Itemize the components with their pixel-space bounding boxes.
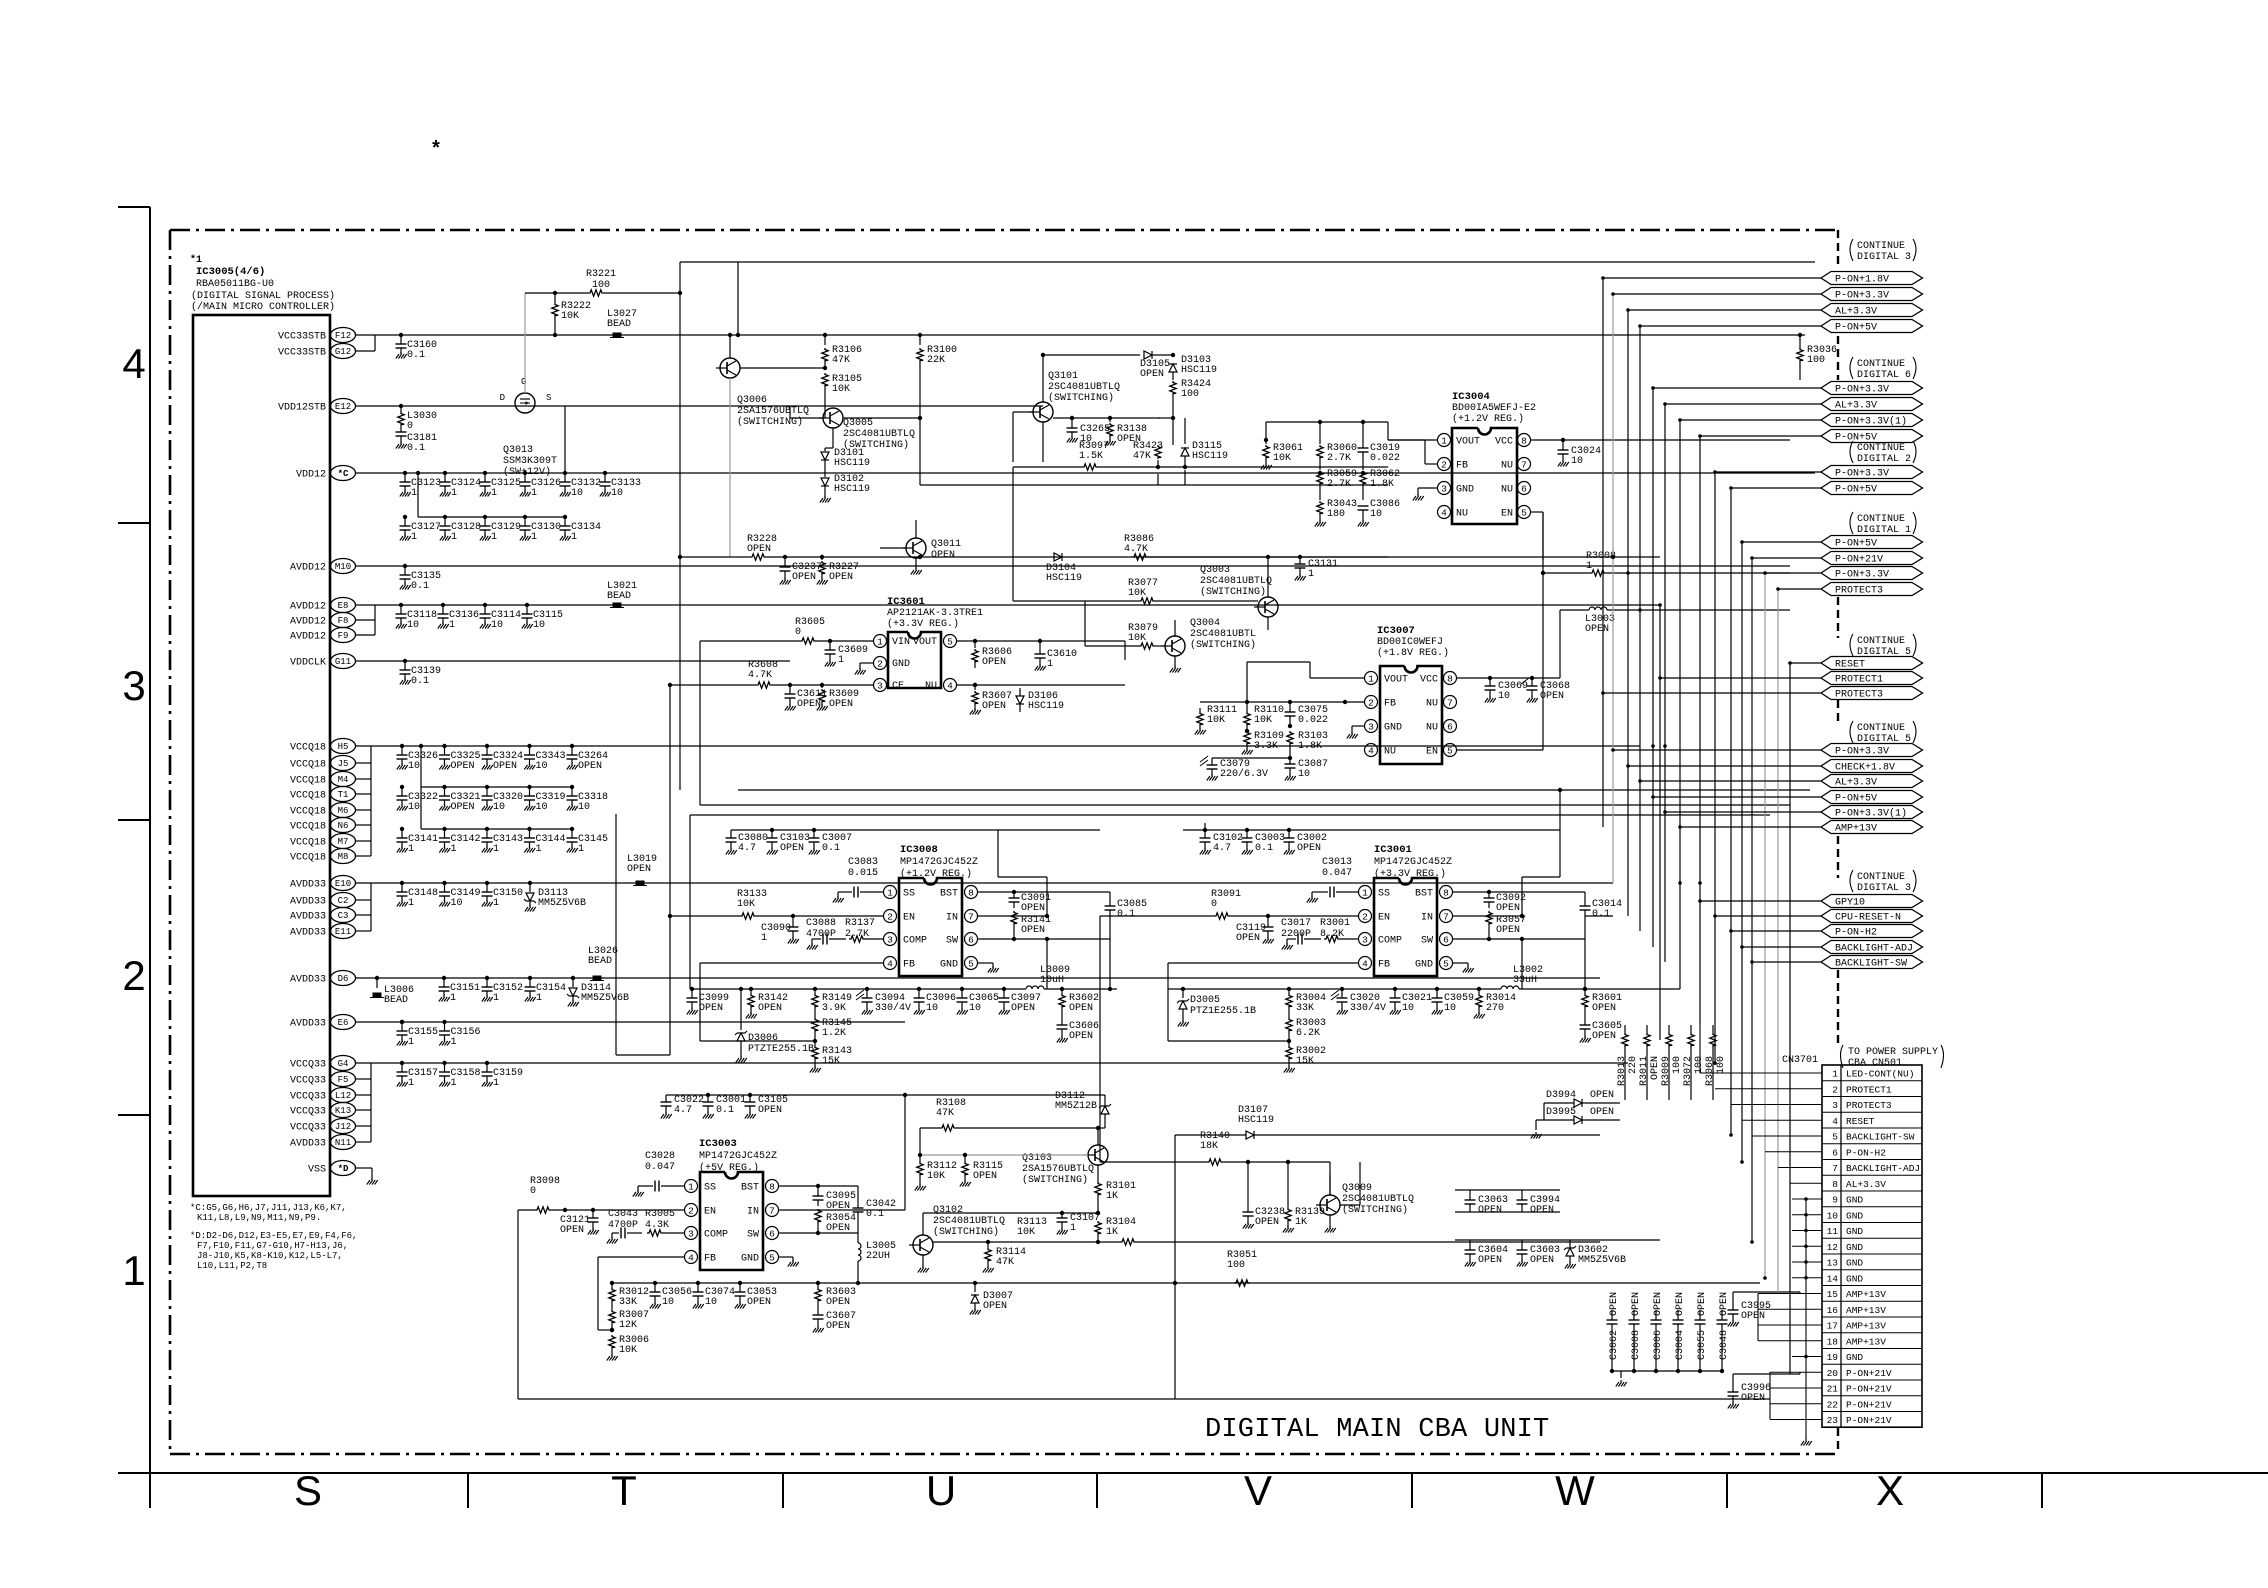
wire C3022 bus (666, 1094, 1105, 1096)
svg-text:P-ON-H2: P-ON-H2 (1846, 1147, 1886, 1158)
capacitor C3611 (789, 685, 791, 694)
IC3004 pin 6 NU (1518, 482, 1531, 495)
resistor R3012 (610, 1281, 614, 1285)
svg-text:2: 2 (1362, 911, 1368, 922)
wire AVDD12 M10 row (356, 565, 1790, 567)
svg-text:C3083: C3083 (848, 857, 878, 868)
net flag PROTECT1 (1821, 672, 1923, 685)
svg-text:2SC4081UBTL: 2SC4081UBTL (1190, 629, 1256, 640)
svg-text:SS: SS (704, 1183, 716, 1194)
net flag P-ON+3.3V(1) (1821, 806, 1923, 819)
svg-text:VCCQ18: VCCQ18 (290, 760, 326, 771)
svg-text:(+1.8V REG.): (+1.8V REG.) (1377, 647, 1449, 659)
svg-text:OPEN: OPEN (982, 657, 1006, 668)
capacitor C3075 (1288, 700, 1292, 704)
svg-text:TO POWER SUPPLY: TO POWER SUPPLY (1848, 1047, 1938, 1058)
svg-text:P-ON+21V: P-ON+21V (1846, 1368, 1892, 1379)
svg-text:100: 100 (1227, 1260, 1245, 1271)
svg-text:GND: GND (940, 960, 958, 971)
svg-text:VDDCLK: VDDCLK (290, 658, 326, 669)
IC3007 pin 5 EN (1444, 744, 1457, 757)
capacitor C3237 (784, 557, 786, 567)
wire flag stub (1665, 403, 1821, 405)
wire R3079 row (1085, 645, 1139, 647)
capacitor C3115 (525, 603, 529, 607)
wire loop left2 (699, 641, 701, 805)
wire bus vertical (1679, 420, 1681, 989)
IC3008 pin 3 COMP (884, 933, 897, 946)
svg-text:IN: IN (1421, 913, 1433, 924)
wire bus vertical (1714, 472, 1716, 1065)
capacitor C3056 (653, 1281, 657, 1285)
wire flag stub (1742, 541, 1821, 543)
svg-text:CBA CN501: CBA CN501 (1848, 1058, 1902, 1069)
capacitor C3141 (400, 827, 404, 831)
svg-text:7: 7 (1832, 1163, 1838, 1174)
svg-text:OPEN: OPEN (829, 572, 853, 583)
capacitor C3604 (1469, 1240, 1471, 1250)
svg-text:1: 1 (1362, 887, 1368, 898)
capacitor C3134 (563, 515, 567, 519)
resistor R3059 (1317, 471, 1323, 485)
svg-text:10K: 10K (561, 311, 579, 322)
wire Q3101 base link (1158, 417, 1173, 419)
wire IN 3001 (1453, 915, 1522, 917)
svg-text:C3043: C3043 (608, 1209, 638, 1220)
svg-text:EN: EN (1426, 747, 1438, 758)
resistor R3609 (821, 685, 823, 688)
wire C3080 bus (731, 829, 1100, 831)
svg-text:220/6.3V: 220/6.3V (1220, 768, 1268, 780)
IC3004 pin 7 NU (1518, 458, 1531, 471)
transistor Q3009 (1320, 1195, 1340, 1215)
svg-text:OPEN: OPEN (747, 1297, 771, 1308)
wire VCCQ33 row (356, 1062, 1628, 1064)
svg-text:OPEN: OPEN (1236, 933, 1260, 944)
svg-text:VDD12STB: VDD12STB (278, 403, 326, 414)
inductor L3006 BEAD (375, 976, 379, 980)
svg-text:10: 10 (1402, 1003, 1414, 1014)
wire feeder junction (1638, 608, 1642, 612)
svg-text:M6: M6 (338, 806, 349, 816)
wire long bus B (700, 804, 1790, 806)
wire VCCQ18 subrow1 (419, 744, 423, 748)
IC3001 pin 5 GND (1440, 957, 1453, 970)
svg-text:HSC119: HSC119 (1046, 573, 1082, 584)
svg-text:1: 1 (531, 532, 537, 543)
svg-text:4: 4 (947, 680, 953, 691)
svg-text:0.1: 0.1 (407, 350, 425, 361)
capacitor C3119 (1267, 916, 1269, 927)
capacitor C3181 (400, 426, 402, 432)
svg-text:C3088: C3088 (806, 918, 836, 929)
svg-text:HSC119: HSC119 (1181, 365, 1217, 376)
svg-text:BST: BST (1415, 889, 1433, 900)
wire flag stub (1640, 325, 1821, 327)
net flag P-ON+3.3V (1821, 567, 1923, 580)
resistor R3227 (821, 557, 823, 560)
svg-text:AVDD12: AVDD12 (290, 563, 326, 574)
resistor R3068 (1710, 1033, 1716, 1047)
svg-text:H5: H5 (338, 742, 349, 752)
svg-text:OPEN: OPEN (1609, 1292, 1620, 1316)
resistor R3036 (1799, 335, 1801, 348)
capacitor C3042 (853, 1207, 864, 1209)
svg-text:1: 1 (122, 1247, 145, 1294)
wire R3007 tap (598, 1329, 612, 1331)
wire flag stub (1715, 471, 1821, 473)
svg-text:FB: FB (1456, 461, 1468, 472)
svg-text:BACKLIGHT-ADJ: BACKLIGHT-ADJ (1835, 944, 1913, 955)
svg-text:0.047: 0.047 (1322, 868, 1352, 879)
svg-text:C3017: C3017 (1281, 918, 1311, 929)
wire flag stub (1640, 780, 1821, 782)
capacitor C3114 (483, 603, 487, 607)
svg-text:VCCQ33: VCCQ33 (290, 1107, 326, 1118)
wire out bus 3001 (1168, 988, 1501, 990)
wire Q3102 links (922, 1213, 924, 1235)
svg-text:CONTINUE: CONTINUE (1857, 636, 1905, 647)
wire mid col (679, 293, 681, 790)
svg-text:CONTINUE: CONTINUE (1857, 443, 1905, 454)
wire R3113 row (933, 1241, 1120, 1243)
resistor R3110 (1246, 702, 1248, 712)
wire feeder junction (1663, 744, 1667, 748)
IC3008 pin 1 SS (884, 886, 897, 899)
svg-text:OPEN: OPEN (1697, 1292, 1708, 1316)
resistor R3111 (1199, 708, 1201, 712)
svg-text:RBA05011BG-U0: RBA05011BG-U0 (196, 279, 274, 290)
diode D3115 HSC119 (1181, 448, 1189, 456)
wire flag stub (1628, 765, 1821, 767)
wire mid row right (1148, 556, 1660, 558)
svg-text:DIGITAL 1: DIGITAL 1 (1857, 525, 1911, 536)
wire flag stub (1731, 930, 1821, 932)
wire VDD12STB row (356, 405, 1043, 407)
svg-text:2: 2 (1832, 1084, 1838, 1095)
capacitor C3095 (817, 1186, 819, 1196)
wire R3108 row (920, 1127, 940, 1129)
capacitor C3126 (523, 471, 527, 475)
svg-text:AL+3.3V: AL+3.3V (1835, 401, 1877, 412)
svg-text:VCCQ18: VCCQ18 (290, 822, 326, 833)
IC3004 pin 4 NU (1438, 506, 1451, 519)
wire R3008 row (1543, 572, 1590, 574)
svg-text:1: 1 (493, 844, 499, 855)
svg-text:GPY10: GPY10 (1835, 898, 1865, 909)
svg-text:1: 1 (408, 1037, 414, 1048)
svg-text:SS: SS (1378, 889, 1390, 900)
wire Q3101 base row (1053, 417, 1072, 419)
svg-text:6: 6 (1447, 721, 1453, 732)
svg-text:M4: M4 (338, 775, 349, 785)
capacitor C3063 (1469, 1190, 1471, 1200)
column tick (782, 1473, 784, 1508)
capacitor C3605 (1580, 1024, 1591, 1026)
svg-text:OPEN: OPEN (1650, 1056, 1661, 1080)
svg-text:BD00IC0WEFJ: BD00IC0WEFJ (1377, 637, 1443, 648)
IC3004 pin 5 EN (1518, 506, 1531, 519)
resistor R3424 (1170, 381, 1176, 395)
svg-text:1: 1 (1586, 561, 1592, 572)
svg-text:Q3003: Q3003 (1200, 565, 1230, 576)
svg-text:GND: GND (1846, 1226, 1863, 1237)
net flag P-ON+5V (1821, 482, 1923, 495)
capacitor C3091 (1013, 892, 1015, 898)
wire bus vertical (1652, 388, 1654, 947)
unit dash-dot border right (1837, 230, 1839, 268)
svg-text:T: T (611, 1467, 637, 1514)
capacitor C3069 (1489, 678, 1491, 686)
capacitor C3139 (403, 659, 407, 663)
svg-text:4: 4 (122, 340, 145, 387)
svg-text:E10: E10 (335, 879, 351, 889)
svg-text:8: 8 (1832, 1179, 1838, 1190)
svg-text:OPEN: OPEN (1530, 1205, 1554, 1216)
svg-text:OPEN: OPEN (973, 1171, 997, 1182)
svg-text:AL+3.3V: AL+3.3V (1835, 307, 1877, 318)
capacitor C3318 (570, 785, 574, 789)
IC3001 pin 4 FB (1359, 957, 1372, 970)
capacitor C3065 (960, 987, 964, 991)
wire IC3004 EN (1531, 511, 1543, 513)
IC3001 pin 2 EN (1359, 910, 1372, 923)
svg-text:7: 7 (1521, 459, 1527, 470)
capacitor C3128 (443, 515, 447, 519)
svg-text:0.1: 0.1 (1117, 909, 1135, 920)
wire out bus (692, 988, 1026, 990)
svg-text:F7,F10,F11,G7-G10,H7-H13,J6,: F7,F10,F11,G7-G10,H7-H13,J6, (197, 1241, 348, 1251)
svg-text:CONTINUE: CONTINUE (1857, 359, 1905, 370)
svg-text:OPEN: OPEN (1496, 925, 1520, 936)
svg-text:C3028: C3028 (645, 1151, 675, 1162)
svg-text:U: U (926, 1467, 956, 1514)
svg-text:GND: GND (1846, 1258, 1863, 1269)
wire BST feed (998, 876, 1047, 878)
svg-text:MP1472GJC452Z: MP1472GJC452Z (900, 857, 978, 868)
svg-text:4700P: 4700P (608, 1220, 638, 1231)
capacitor C3074 (696, 1281, 700, 1285)
svg-text:1: 1 (451, 1037, 457, 1048)
transistor Q3103 (1088, 1145, 1108, 1165)
wire VDD12 subrow (416, 471, 420, 475)
wire mid row (680, 556, 750, 558)
svg-text:1: 1 (887, 887, 893, 898)
svg-text:OPEN: OPEN (1540, 691, 1564, 702)
wire AVDD33 E6 row (356, 1021, 905, 1023)
svg-text:COMP: COMP (1378, 936, 1402, 947)
net flag P-ON+3.3V(1) (1821, 414, 1923, 427)
wire feeder junction (1763, 1276, 1767, 1280)
svg-text:10: 10 (536, 802, 548, 813)
svg-text:(SWITCHING): (SWITCHING) (1190, 639, 1256, 651)
wire C3996 link (1732, 1374, 1734, 1382)
svg-text:AVDD33: AVDD33 (290, 897, 326, 908)
svg-text:OPEN: OPEN (1478, 1255, 1502, 1266)
diode D3104 HSC119 (1054, 553, 1062, 561)
svg-text:OPEN: OPEN (826, 1201, 850, 1212)
svg-text:10: 10 (491, 620, 503, 631)
capacitor C3158 (442, 1061, 446, 1065)
svg-text:(/MAIN MICRO CONTROLLER): (/MAIN MICRO CONTROLLER) (191, 301, 335, 313)
transistor Q3101 (1033, 402, 1053, 422)
svg-text:P-ON+21V: P-ON+21V (1846, 1415, 1892, 1426)
svg-text:P-ON+3.3V: P-ON+3.3V (1835, 385, 1889, 396)
svg-text:VSS: VSS (308, 1165, 326, 1176)
svg-text:33K: 33K (1296, 1003, 1314, 1014)
wire long bus A (738, 789, 1810, 791)
IC3008 pin 4 FB (884, 957, 897, 970)
wire VCCQ33 merge (356, 1078, 371, 1080)
svg-text:270: 270 (1486, 1003, 1504, 1014)
wire Q3006 base (740, 367, 825, 369)
wire feeder junction (1611, 555, 1615, 559)
wire GND pin (978, 962, 993, 964)
svg-text:1: 1 (1047, 659, 1053, 670)
svg-text:R3001: R3001 (1320, 918, 1350, 929)
svg-text:4: 4 (1441, 507, 1447, 518)
wire VIN row (700, 640, 800, 642)
svg-text:5: 5 (1521, 507, 1527, 518)
capacitor C3136 (441, 603, 445, 607)
svg-text:OPEN: OPEN (1719, 1292, 1730, 1316)
capacitor C3264 (570, 744, 574, 748)
svg-text:F9: F9 (338, 631, 349, 641)
svg-text:D3005: D3005 (1190, 995, 1220, 1006)
connector gnd rail (1805, 1199, 1807, 1437)
svg-text:OPEN: OPEN (451, 761, 475, 772)
net flag P-ON+3.3V (1821, 744, 1923, 757)
inductor L3003 OPEN (1589, 607, 1607, 610)
svg-text:PROTECT3: PROTECT3 (1835, 690, 1883, 701)
capacitor C3152 (485, 976, 489, 980)
wire bus vertical (1659, 605, 1661, 1040)
net flag CPU-RESET-N (1821, 910, 1923, 923)
wire feeder junction (1658, 603, 1662, 607)
svg-text:10: 10 (578, 802, 590, 813)
svg-text:100: 100 (1672, 1056, 1683, 1074)
column tick (467, 1473, 469, 1508)
svg-text:100: 100 (1807, 355, 1825, 366)
svg-text:2200P: 2200P (1281, 929, 1311, 940)
svg-text:3: 3 (1362, 934, 1368, 945)
IC3007 pin 2 FB (1365, 696, 1378, 709)
resistor R3072 (1688, 1033, 1694, 1047)
svg-text:R3221: R3221 (586, 269, 616, 280)
net flag AL+3.3V (1821, 398, 1923, 411)
IC3007 pin 4 NU (1365, 744, 1378, 757)
capacitor C3265 (1070, 416, 1074, 420)
column tick (1411, 1473, 1413, 1508)
svg-text:D: D (500, 393, 505, 403)
svg-text:1: 1 (493, 993, 499, 1004)
svg-text:3: 3 (877, 680, 883, 691)
svg-text:18: 18 (1827, 1336, 1839, 1347)
wire flag stub (1700, 900, 1821, 902)
svg-text:(+1.2V REG.): (+1.2V REG.) (1452, 413, 1524, 425)
svg-text:AMP+13V: AMP+13V (1846, 1336, 1886, 1347)
wire bus vertical (1602, 278, 1604, 827)
svg-text:R3068: R3068 (1705, 1056, 1716, 1086)
resistor R3142 (749, 987, 753, 991)
svg-text:0.1: 0.1 (822, 843, 840, 854)
svg-text:1: 1 (451, 844, 457, 855)
resistor R3139 (1286, 1160, 1290, 1164)
svg-text:10: 10 (1370, 509, 1382, 520)
svg-text:AVDD12: AVDD12 (290, 602, 326, 613)
capacitor C3142 (442, 827, 446, 831)
wire flag stub (1660, 677, 1821, 679)
wire flag stub (1731, 487, 1821, 489)
net flag AL+3.3V (1821, 304, 1923, 317)
resistor R3062 (1360, 471, 1366, 485)
svg-text:0: 0 (795, 627, 801, 638)
svg-text:2: 2 (122, 952, 145, 999)
svg-text:CHECK+1.8V: CHECK+1.8V (1835, 763, 1895, 774)
wire flag stub (1653, 796, 1821, 798)
svg-text:(SWITCHING): (SWITCHING) (933, 1226, 999, 1238)
svg-text:OPEN: OPEN (829, 699, 853, 710)
svg-text:OPEN: OPEN (1592, 1003, 1616, 1014)
svg-text:1K: 1K (1295, 1217, 1307, 1228)
svg-text:3: 3 (887, 934, 893, 945)
svg-text:Q3006: Q3006 (737, 395, 767, 406)
svg-text:DIGITAL MAIN CBA UNIT: DIGITAL MAIN CBA UNIT (1205, 1415, 1549, 1445)
svg-text:P-ON+21V: P-ON+21V (1835, 555, 1883, 566)
svg-text:1: 1 (450, 993, 456, 1004)
wire amp13 feeders (1758, 1293, 1822, 1295)
svg-text:HSC119: HSC119 (1192, 451, 1228, 462)
svg-text:1: 1 (451, 1078, 457, 1089)
wire FB junction (700, 1040, 815, 1042)
svg-text:L10,L11,P2,T8: L10,L11,P2,T8 (197, 1261, 267, 1271)
svg-text:15K: 15K (1296, 1056, 1314, 1067)
capacitor C3123 (403, 471, 407, 475)
resistor R3002 (1286, 1046, 1292, 1060)
capacitor C3144 (527, 827, 531, 831)
svg-text:10: 10 (1298, 769, 1310, 780)
svg-text:2: 2 (688, 1205, 694, 1216)
unit dash-dot border left (169, 230, 172, 1454)
svg-text:OPEN: OPEN (982, 701, 1006, 712)
capacitor C3092 (1488, 892, 1490, 898)
resistor R3104 (1096, 1211, 1100, 1215)
svg-text:AVDD33: AVDD33 (290, 912, 326, 923)
svg-text:OPEN: OPEN (627, 864, 651, 875)
transistor Q3013 SSM3K309T (515, 393, 535, 413)
svg-text:AVDD33: AVDD33 (290, 1139, 326, 1150)
net flag P-ON+1.8V (1821, 272, 1923, 285)
wire R311x row (1200, 701, 1345, 703)
svg-text:10: 10 (1571, 456, 1583, 467)
net flag P-ON+5V (1821, 536, 1923, 549)
svg-text:1.8K: 1.8K (1370, 479, 1394, 490)
capacitor C3145 (570, 827, 574, 831)
svg-text:1: 1 (536, 993, 542, 1004)
svg-text:OPEN: OPEN (699, 1003, 723, 1014)
net flag BACKLIGHT-ADJ (1821, 941, 1923, 954)
svg-text:P-ON+3.3V: P-ON+3.3V (1835, 291, 1889, 302)
capacitor C3143 (485, 827, 489, 831)
svg-text:T1: T1 (338, 790, 349, 800)
svg-text:EN: EN (1378, 913, 1390, 924)
svg-text:F12: F12 (335, 331, 351, 341)
svg-text:20: 20 (1827, 1368, 1839, 1379)
wire VCC33STB row (356, 334, 1805, 336)
capacitor C3080 (730, 830, 732, 838)
svg-text:2SC4081UBTLQ: 2SC4081UBTLQ (1200, 576, 1272, 587)
svg-text:10: 10 (451, 898, 463, 909)
